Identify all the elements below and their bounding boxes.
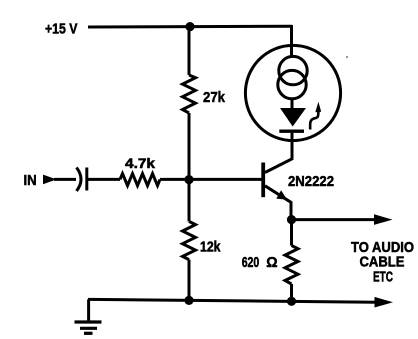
- svg-text:+15 V: +15 V: [45, 21, 78, 38]
- svg-text:Ω: Ω: [266, 254, 277, 271]
- svg-text:ETC: ETC: [373, 269, 393, 286]
- svg-text:620: 620: [242, 254, 260, 271]
- svg-text:IN: IN: [24, 172, 37, 189]
- svg-text:4.7k: 4.7k: [125, 156, 156, 171]
- svg-text:2N2222: 2N2222: [288, 173, 334, 190]
- svg-text:27k: 27k: [203, 89, 226, 106]
- svg-text:12k: 12k: [200, 238, 221, 255]
